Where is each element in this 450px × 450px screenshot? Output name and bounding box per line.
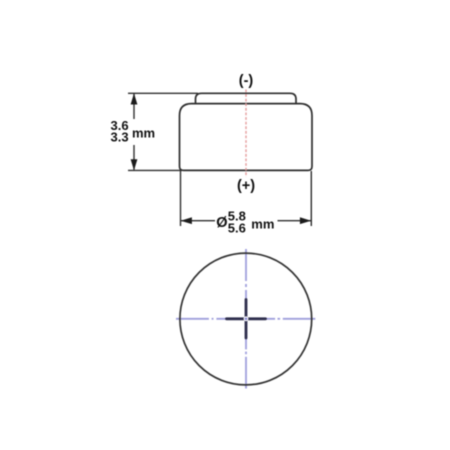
svg-text:Ø: Ø [216, 215, 227, 231]
svg-text:5.6: 5.6 [228, 220, 246, 235]
blue horizontal centerline dashes [176, 318, 315, 320]
svg-text:mm: mm [251, 216, 274, 231]
height dimension extension lines [128, 93, 198, 170]
battery side view [180, 93, 313, 170]
blue vertical centerline dashes [245, 249, 247, 389]
svg-text:(+): (+) [237, 178, 255, 194]
top cap (negative terminal) [196, 93, 297, 104]
red centerline (axis of symmetry) [245, 90, 247, 178]
center dot of cross [244, 316, 249, 321]
svg-text:mm: mm [132, 126, 155, 141]
bottom view circle (positive face) [180, 253, 312, 385]
center cross marker [227, 300, 266, 339]
diameter dimension extension lines [181, 171, 312, 226]
svg-text:3.3: 3.3 [111, 129, 129, 144]
height dimension line segments [133, 94, 135, 119]
can body [180, 104, 313, 171]
svg-text:(-): (-) [239, 73, 254, 89]
diameter dimension line segments [181, 220, 215, 222]
height dimension arrowheads [131, 93, 138, 170]
diameter dimension arrowheads [181, 217, 311, 224]
